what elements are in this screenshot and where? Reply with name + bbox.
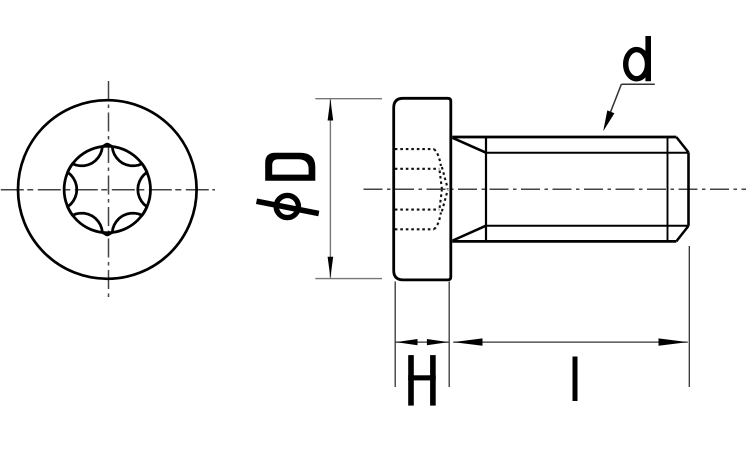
d letter label xyxy=(645,36,651,81)
hidden socket chamfer curve (bottom) xyxy=(434,212,441,229)
end chamfer (top) xyxy=(676,137,688,152)
phi symbol of phiD label xyxy=(276,195,298,217)
H extension line (right) xyxy=(448,282,450,388)
chamfer start line xyxy=(667,137,669,241)
thread runout slant (bottom) xyxy=(453,226,487,241)
phiD arrow down xyxy=(328,257,334,278)
d label leader underline xyxy=(621,83,654,85)
hidden socket cone flank inner (bottom) xyxy=(440,190,442,208)
front view vertical centerline xyxy=(108,81,110,298)
hidden socket outer diameter (top) xyxy=(395,148,434,150)
H arrow left xyxy=(396,339,418,345)
thread major diameter line (top) xyxy=(452,136,676,139)
hidden socket outer diameter (bottom) xyxy=(395,228,434,230)
torx socket hexalobular profile xyxy=(68,144,147,235)
phiD extension line (top) xyxy=(315,98,382,100)
H dimension line xyxy=(395,341,449,343)
H arrow right xyxy=(427,339,449,345)
thread runout slant (top) xyxy=(453,138,487,153)
torx socket entry circle xyxy=(64,146,150,232)
l extension line (right) xyxy=(688,246,690,387)
d leader arrowhead xyxy=(603,110,614,131)
phiD arrow up xyxy=(328,99,334,120)
phiD dimension line xyxy=(329,99,331,278)
hidden socket cone flank outer (top) xyxy=(442,167,448,189)
screw head (side view) xyxy=(394,98,451,280)
head outline circle (front view) xyxy=(18,100,197,279)
hidden socket cone flank inner (top) xyxy=(440,171,442,189)
hidden socket inner diameter (bottom) xyxy=(395,209,440,211)
H letter label xyxy=(408,355,436,406)
D letter of phiD label (rotated) xyxy=(265,153,315,181)
end chamfer (bottom) xyxy=(676,226,688,242)
l letter label xyxy=(573,357,578,402)
hidden socket cone flank outer (bottom) xyxy=(442,190,448,212)
front view horizontal centerline xyxy=(1,189,215,191)
thread major diameter line (bottom) xyxy=(452,240,676,243)
H extension line (left) xyxy=(394,282,396,388)
side view centerline xyxy=(364,188,747,190)
thread minor diameter line (top) xyxy=(486,152,689,154)
hidden socket inner diameter (top) xyxy=(395,168,440,170)
thread minor diameter line (bottom) xyxy=(486,225,689,227)
end face xyxy=(687,152,690,226)
l arrow left xyxy=(453,338,482,345)
l dimension line xyxy=(453,341,688,343)
hidden socket chamfer curve (top) xyxy=(434,149,441,166)
full thread start line xyxy=(485,137,487,241)
l arrow right xyxy=(659,338,688,345)
d label leader slant xyxy=(605,84,622,127)
phiD extension line (bottom) xyxy=(315,278,382,280)
